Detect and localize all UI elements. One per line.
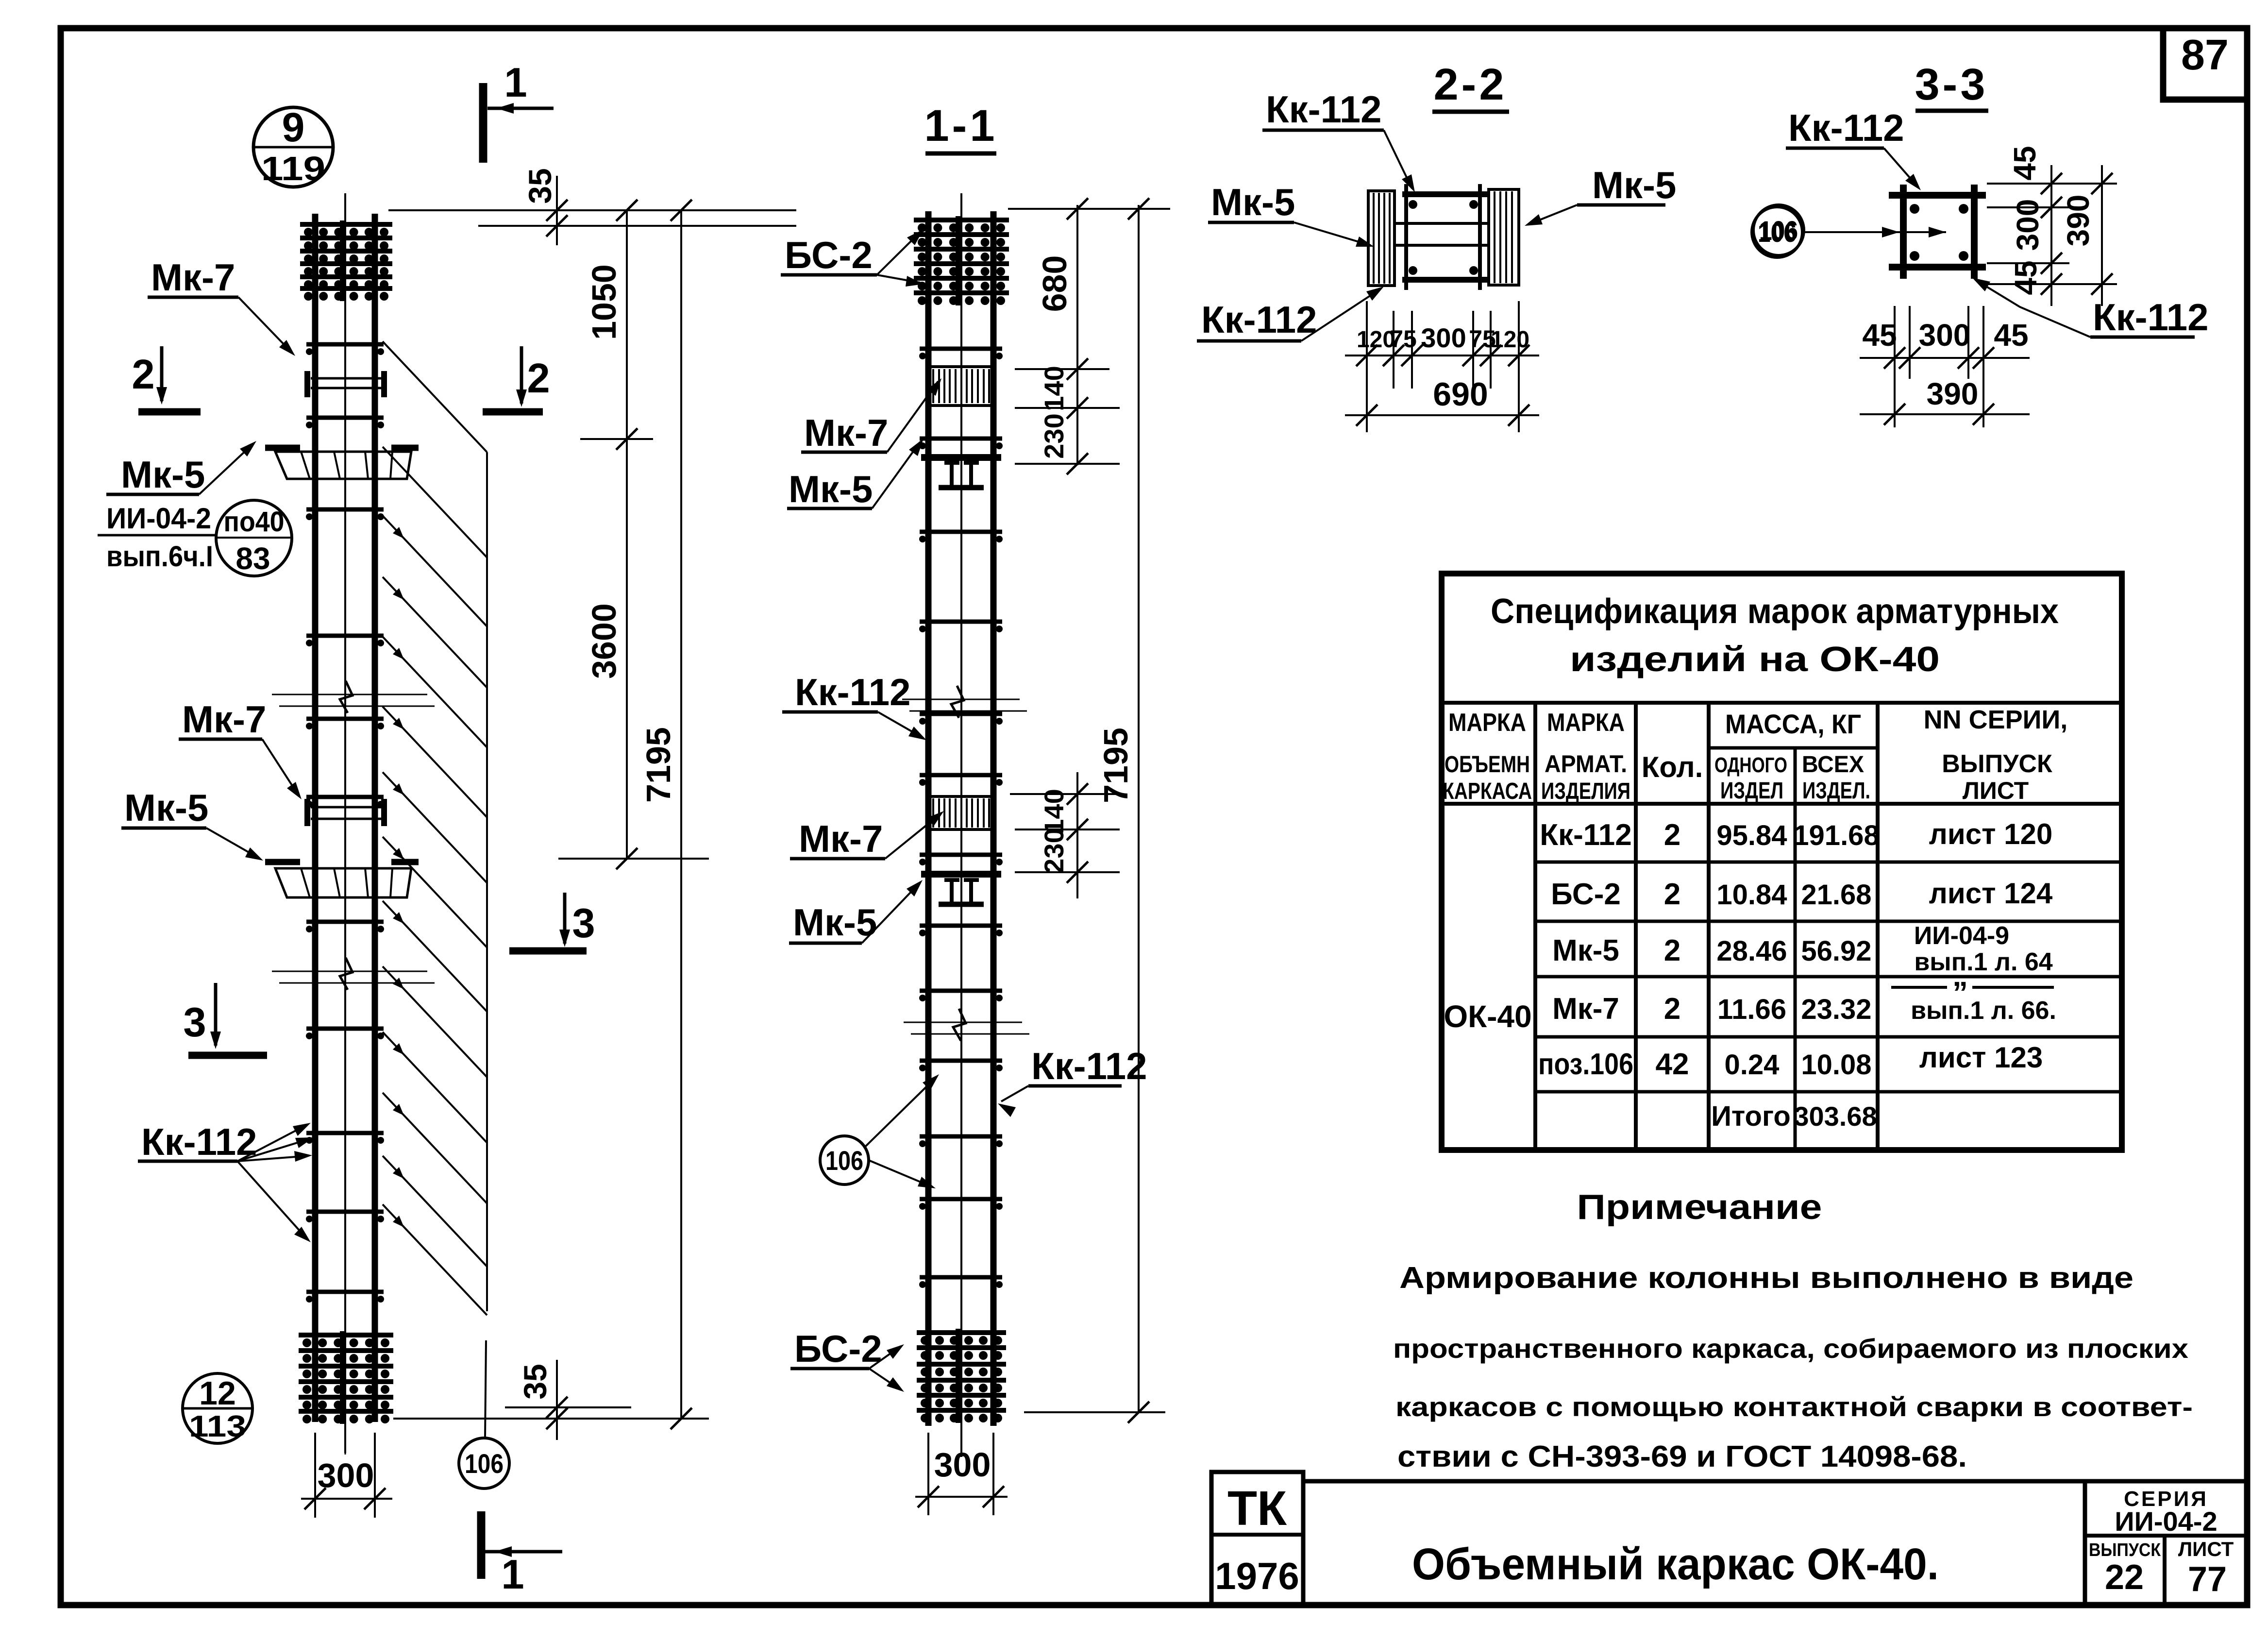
svg-text:106: 106 — [465, 1448, 504, 1479]
svg-text:3: 3 — [183, 999, 206, 1046]
svg-text:303.68: 303.68 — [1794, 1101, 1877, 1132]
svg-text:вып.1 л. 64: вып.1 л. 64 — [1914, 948, 2052, 976]
top extension line (1-1) — [1008, 208, 1170, 210]
svg-text:Спецификация марок арматурны: Спецификация марок арматурных — [1491, 592, 2059, 631]
svg-text:по40: по40 — [224, 506, 285, 538]
middle column Мк-7 hatched mesh node 2 — [928, 796, 993, 829]
svg-text:300: 300 — [1919, 318, 1971, 353]
svg-text:45: 45 — [2007, 146, 2042, 180]
svg-text:Кк-112: Кк-112 — [1031, 1045, 1147, 1087]
sheet number box 87 — [2163, 28, 2247, 100]
2-2 dims 120/75/300/75/120 — [1366, 301, 1368, 432]
dim 680/140/230 node 1 — [1076, 205, 1078, 465]
svg-text:пространственного каркаса, со: пространственного каркаса, собираемого и… — [1393, 1333, 2188, 1364]
svg-text:ствии с СН-393-69 и ГОСТ: ствии с СН-393-69 и ГОСТ 14098-68. — [1397, 1440, 1967, 1473]
svg-text:1: 1 — [504, 60, 527, 106]
svg-text:2: 2 — [1664, 992, 1680, 1026]
svg-text:10.84: 10.84 — [1716, 879, 1787, 911]
position circle 106 (left) — [459, 1438, 509, 1489]
middle column break mark upper — [902, 699, 1020, 700]
hatch boundary vertical — [486, 452, 488, 1311]
svg-text:МАССА, КГ: МАССА, КГ — [1725, 709, 1861, 739]
svg-text:каркасов с помощью контактной: каркасов с помощью контактной сварки в с… — [1395, 1391, 2193, 1422]
detail circle 9/119 — [253, 107, 333, 187]
svg-text:140: 140 — [1039, 789, 1069, 834]
svg-text:106: 106 — [1758, 217, 1797, 248]
3-3 right dims 45/300/390/45 — [1987, 183, 2117, 185]
svg-text:2: 2 — [527, 355, 550, 402]
svg-text:АРМАТ.: АРМАТ. — [1545, 750, 1627, 778]
svg-text:140: 140 — [1039, 366, 1069, 411]
left column elevation: chord bars Кк-112 — [312, 214, 319, 1422]
svg-text:45: 45 — [1862, 318, 1897, 353]
svg-text:95.84: 95.84 — [1716, 820, 1787, 851]
vertical dim line 1050/3600 — [626, 210, 628, 859]
table grid — [1442, 701, 2122, 705]
position circle 106 (1-1) — [820, 1136, 869, 1184]
3-3 square: Кк-112 bars — [1900, 185, 1907, 279]
middle column bottom mesh БС-2 zone — [956, 1329, 960, 1423]
svg-text:ОК-40: ОК-40 — [1444, 999, 1531, 1034]
svg-text:ЛИСТ: ЛИСТ — [2178, 1538, 2234, 1560]
svg-text:вып.6ч.I: вып.6ч.I — [106, 540, 213, 573]
top extension lines + dim 35 (left col) — [388, 209, 796, 211]
svg-text:230: 230 — [1039, 828, 1069, 873]
middle column Мк-7 hatched mesh node 1 — [928, 367, 993, 406]
svg-text:10.08: 10.08 — [1801, 1049, 1871, 1081]
svg-text:Итого: Итого — [1711, 1100, 1791, 1132]
2-2 dim 690 — [1345, 414, 1539, 416]
position circle 106 (2-2, page edge) — [1753, 205, 1804, 255]
svg-text:35: 35 — [517, 1364, 553, 1399]
svg-text:45: 45 — [1994, 318, 2028, 353]
svg-text:87: 87 — [2181, 31, 2229, 79]
svg-text:0.24: 0.24 — [1725, 1049, 1780, 1081]
3-3 corner bar dots — [1910, 204, 1919, 214]
left column centerline — [344, 193, 346, 1453]
svg-text:7195: 7195 — [1097, 727, 1135, 803]
svg-text:МАРКА: МАРКА — [1448, 709, 1526, 737]
svg-text:28.46: 28.46 — [1716, 935, 1787, 967]
middle column Мк-5 plate + I-beams node 2 — [921, 871, 1001, 878]
svg-text:2-2: 2-2 — [1434, 60, 1507, 109]
svg-text:9: 9 — [282, 104, 305, 150]
svg-text:ИЗДЕЛИЯ: ИЗДЕЛИЯ — [1541, 778, 1630, 804]
specification table frame — [1442, 574, 2122, 1150]
svg-text:75: 75 — [1390, 325, 1417, 353]
svg-text:Мк-5: Мк-5 — [1592, 164, 1676, 206]
svg-text:БС-2: БС-2 — [785, 234, 873, 276]
svg-text:NN СЕРИИ,: NN СЕРИИ, — [1924, 705, 2068, 734]
middle column chord bars Кк-112 — [925, 211, 932, 1426]
svg-text:ИИ-04-2: ИИ-04-2 — [2115, 1506, 2217, 1537]
svg-text:83: 83 — [235, 541, 270, 576]
left column bottom mesh БС-2 zone — [340, 1331, 345, 1424]
svg-text:300: 300 — [2010, 199, 2045, 251]
svg-text:лист 120: лист 120 — [1929, 818, 2053, 850]
svg-text:35: 35 — [522, 168, 558, 203]
left column top mesh БС-2 zone — [340, 220, 345, 301]
svg-text:Мк-5: Мк-5 — [1211, 181, 1295, 223]
svg-text:БС-2: БС-2 — [1551, 878, 1621, 911]
svg-text:2: 2 — [1664, 818, 1680, 852]
2-2 core square: Кк-112 bars — [1402, 191, 1489, 197]
svg-text:ОБЪЕМН: ОБЪЕМН — [1445, 752, 1530, 778]
svg-text:Кк-112: Кк-112 — [1540, 818, 1632, 852]
svg-text:191.68: 191.68 — [1793, 820, 1879, 851]
middle column top mesh БС-2 zone — [956, 216, 960, 305]
svg-text:лист 124: лист 124 — [1929, 877, 2053, 910]
svg-text:2: 2 — [132, 352, 154, 398]
svg-text:690: 690 — [1433, 376, 1488, 413]
svg-text:Кк-112: Кк-112 — [1266, 88, 1381, 131]
svg-text:390: 390 — [2061, 195, 2096, 247]
svg-text:Мк-5: Мк-5 — [1552, 934, 1619, 967]
svg-text:Кк-112: Кк-112 — [2093, 296, 2208, 338]
position circle 106 (3-3) with leaders — [1752, 207, 1802, 257]
svg-text:Кк-112: Кк-112 — [795, 671, 910, 713]
svg-text:300: 300 — [318, 1456, 374, 1494]
svg-text:2: 2 — [1664, 878, 1680, 911]
svg-text:Мк-5: Мк-5 — [789, 468, 873, 510]
svg-text:КАРКАСА: КАРКАСА — [1443, 778, 1532, 804]
bottom extension lines + dim 35 (left col) — [505, 1406, 631, 1408]
svg-text:1976: 1976 — [1215, 1555, 1299, 1597]
svg-text:МАРКА: МАРКА — [1547, 709, 1625, 737]
3-3 dim 390 — [1860, 413, 2030, 415]
svg-text:ВЫПУСК: ВЫПУСК — [1942, 750, 2052, 778]
svg-text:390: 390 — [1927, 376, 1979, 411]
svg-text:119: 119 — [261, 150, 325, 187]
svg-text:1050: 1050 — [585, 264, 623, 340]
2-2 corner bar dots — [1409, 200, 1417, 209]
svg-text:42: 42 — [1656, 1048, 1689, 1081]
svg-text:лист 123: лист 123 — [1919, 1041, 2043, 1074]
svg-text:2: 2 — [1664, 934, 1680, 967]
vertical dim line 7195 (left) — [680, 210, 682, 1419]
middle column break mark lower — [904, 1022, 1022, 1023]
svg-text:11.66: 11.66 — [1717, 994, 1786, 1025]
left column break mark upper — [272, 694, 427, 695]
svg-text:3-3: 3-3 — [1915, 60, 1988, 109]
svg-text:„: „ — [1952, 958, 1968, 993]
left column Мк-5 plates node 1 — [265, 445, 300, 451]
svg-text:Армирование колонны выполнено: Армирование колонны выполнено в виде — [1399, 1261, 2134, 1295]
series box — [2083, 1481, 2087, 1605]
svg-text:ИИ-04-2: ИИ-04-2 — [106, 502, 211, 535]
vertical dim line 7195 (1-1) — [1138, 205, 1140, 1412]
svg-text:22: 22 — [2105, 1558, 2144, 1597]
svg-text:230: 230 — [1039, 413, 1069, 458]
middle column ties поз.106 — [920, 347, 1002, 351]
svg-text:Мк-5: Мк-5 — [124, 786, 208, 829]
2-2 right Мк-5 plate (hatched) — [1489, 189, 1519, 285]
bottom extension line (1-1) — [1024, 1411, 1165, 1413]
svg-text:12: 12 — [199, 1375, 236, 1412]
section mark 1 (top) — [479, 83, 487, 163]
svg-text:ИЗДЕЛ: ИЗДЕЛ — [1720, 778, 1783, 804]
left column Мк-5 plates node 2 — [265, 859, 300, 865]
svg-text:ВСЕХ: ВСЕХ — [1802, 752, 1864, 778]
svg-text:Мк-7: Мк-7 — [1552, 992, 1619, 1026]
svg-text:7195: 7195 — [639, 727, 677, 803]
svg-text:Мк-7: Мк-7 — [804, 411, 888, 454]
svg-text:вып.1 л. 66.: вып.1 л. 66. — [1911, 997, 2056, 1025]
svg-text:Примечание: Примечание — [1577, 1188, 1822, 1227]
svg-text:ТК: ТК — [1227, 1481, 1287, 1536]
svg-text:680: 680 — [1036, 255, 1074, 312]
bottom dim 300 (left col) — [314, 1433, 316, 1518]
left column Мк-5 trapezoid node 1 — [275, 452, 411, 479]
TK/1976 stamp box — [1211, 1472, 1303, 1604]
3-3 bottom dims 45/300/45 — [1894, 306, 1896, 427]
svg-text:Мк-7: Мк-7 — [151, 256, 235, 299]
svg-text:300: 300 — [934, 1446, 991, 1484]
bottom dim 300 (1-1) — [927, 1433, 929, 1515]
svg-text:45: 45 — [2008, 260, 2043, 295]
svg-text:Кк-112: Кк-112 — [1788, 106, 1904, 149]
title block top line — [1303, 1479, 2247, 1484]
svg-text:Кк-112: Кк-112 — [1201, 298, 1317, 341]
hatch band diagonals (tie hook leaders) — [383, 341, 487, 452]
left column Мк-5 trapezoid node 2 — [275, 868, 411, 897]
svg-text:ЛИСТ: ЛИСТ — [1963, 777, 2029, 804]
svg-text:300: 300 — [1421, 322, 1466, 353]
svg-text:Мк-5: Мк-5 — [793, 901, 877, 944]
svg-text:23.32: 23.32 — [1801, 994, 1871, 1025]
left column Мк-7 mesh (edge view), node 1 — [304, 371, 310, 397]
svg-text:поз.106: поз.106 — [1538, 1048, 1633, 1081]
svg-text:120: 120 — [1491, 327, 1529, 353]
detail circle 12/113 — [183, 1373, 252, 1443]
svg-text:ИИ-04-9: ИИ-04-9 — [1914, 922, 2009, 950]
svg-text:1-1: 1-1 — [924, 101, 998, 151]
svg-text:Мк-7: Мк-7 — [182, 698, 266, 741]
svg-text:Мк-5: Мк-5 — [121, 453, 205, 496]
svg-text:1: 1 — [501, 1552, 524, 1598]
svg-text:77: 77 — [2188, 1560, 2227, 1599]
svg-text:3: 3 — [572, 900, 595, 947]
svg-text:БС-2: БС-2 — [794, 1327, 882, 1370]
svg-text:ОДНОГО: ОДНОГО — [1714, 753, 1787, 777]
detail circle по40/83 — [216, 500, 292, 576]
svg-text:106: 106 — [825, 1145, 863, 1176]
svg-text:113: 113 — [189, 1410, 246, 1443]
svg-text:3600: 3600 — [585, 603, 623, 679]
middle column Мк-5 plate + I-beams node 1 — [921, 454, 1001, 461]
svg-text:21.68: 21.68 — [1801, 879, 1871, 911]
section mark 1 (bottom) — [477, 1511, 486, 1579]
svg-text:ИЗДЕЛ.: ИЗДЕЛ. — [1802, 778, 1870, 804]
2-2 left Мк-5 plate (hatched) — [1368, 191, 1394, 286]
svg-text:Кол.: Кол. — [1642, 751, 1703, 783]
svg-text:56.92: 56.92 — [1801, 935, 1871, 967]
svg-text:изделий на ОК-40: изделий на ОК-40 — [1570, 640, 1940, 679]
svg-text:ВЫПУСК: ВЫПУСК — [2089, 1540, 2161, 1560]
left column Мк-7 mesh node 2 — [304, 799, 310, 826]
svg-text:Кк-112: Кк-112 — [141, 1120, 257, 1163]
dim 140/230 node 2 — [1076, 772, 1078, 898]
svg-text:Объемный каркас ОК-40.: Объемный каркас ОК-40. — [1412, 1539, 1939, 1589]
svg-text:Мк-7: Мк-7 — [799, 817, 883, 860]
left column break mark lower — [272, 971, 427, 972]
middle column centerline — [960, 193, 962, 1457]
left column ties поз.106 — [306, 342, 384, 347]
